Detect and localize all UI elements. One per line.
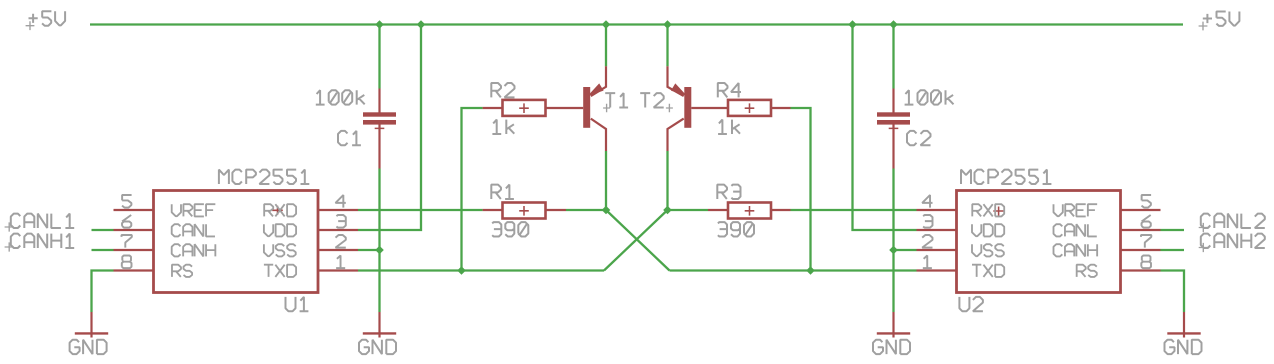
wire U1 RXD to R1: [358, 209, 483, 211]
origin cross T2: [666, 104, 673, 113]
U2 pin 7 CANH: [1054, 235, 1161, 256]
wire U2 RS to GND: [1161, 271, 1185, 313]
wire C2 bottom to GND: [892, 169, 894, 313]
U2 pin 3 VDD: [917, 215, 1005, 236]
label R4 value 1k: [718, 120, 740, 134]
junction C1/U1-VSS: [375, 246, 384, 255]
wire U1 VDD to rail: [358, 25, 421, 231]
U2 pin 6 CANL: [1054, 215, 1161, 236]
label C2 name: [907, 131, 931, 145]
net label CANH2: [1161, 234, 1265, 253]
supply +5V right: [1199, 12, 1240, 31]
junction T2-collector node: [663, 206, 672, 215]
label U1 name: [286, 297, 309, 311]
wire T1 collector vertical: [605, 151, 607, 210]
label C2 value 100k: [905, 90, 954, 104]
wire R4 output vertical: [791, 108, 811, 271]
U1 pin 2 VSS: [264, 235, 358, 256]
supply +5V left: [26, 11, 66, 30]
U1 pin 5 VREF: [114, 195, 216, 216]
junction U1-TXD/R2: [457, 266, 466, 275]
U2 pin 2 VSS: [917, 235, 1004, 256]
wire U2 TXD horizontal: [670, 269, 917, 271]
label R2 value 1k: [492, 120, 514, 134]
label R1 value 390: [492, 222, 528, 236]
capacitor C1: [363, 89, 396, 169]
label U2 part MCP2551: [961, 170, 1051, 184]
wire U1 RS to GND: [92, 271, 114, 313]
label R3 value 390: [718, 222, 754, 236]
wire C1 top: [378, 25, 380, 89]
wire cross-couple T1-collector to U2-TXD: [606, 210, 670, 271]
label C1 name: [338, 131, 361, 145]
wire U2 VDD to rail: [853, 25, 917, 231]
wire cross-couple U1-TXD to T2-collector: [604, 210, 668, 271]
U1 pin 4 RXD: [264, 195, 358, 216]
wire T2 collector to R3: [668, 209, 709, 211]
U2 pin 8 RS: [1077, 256, 1161, 277]
U2 pin 4 RXD: [917, 195, 1005, 216]
resistor R4: [691, 100, 790, 116]
U1 pin 6 CANL: [114, 215, 215, 236]
label U2 name: [959, 297, 983, 311]
U1 pin 8 RS: [114, 256, 193, 277]
wire R2 input vertical: [462, 108, 483, 271]
junction rail/C1: [375, 20, 384, 29]
wire U2 VSS stub: [894, 249, 917, 251]
junction C2/U2-VSS: [889, 246, 898, 255]
wire C1 bottom to GND: [378, 169, 380, 313]
junction rail/T1-emitter: [602, 20, 611, 29]
junction T1-collector node: [602, 206, 611, 215]
label R4 name: [718, 83, 741, 97]
wire T2 collector vertical: [666, 151, 668, 210]
label U1 part MCP2551: [219, 170, 309, 184]
wire C2 top: [892, 25, 894, 89]
junction rail/U1-VDD: [417, 20, 426, 29]
wire R1 output: [566, 209, 606, 211]
junction U2-TXD/R4: [806, 266, 815, 275]
net label CANL1: [5, 214, 114, 232]
wire +5V rail: [90, 23, 1183, 25]
IC U2 MCP2551: [957, 191, 1121, 293]
wire T2 emitter to rail: [666, 25, 668, 67]
ground GND C1: [359, 312, 396, 354]
net label CANL2: [1161, 214, 1265, 233]
ground GND U2: [1165, 312, 1202, 354]
label R1 name: [491, 185, 514, 199]
label R2 name: [491, 83, 514, 97]
resistor R3: [708, 203, 791, 219]
IC U1 MCP2551: [154, 191, 319, 293]
label C1 value 100k: [316, 90, 365, 104]
junction rail/C2: [889, 20, 898, 29]
label R3 name: [717, 185, 740, 199]
junction rail/T2-emitter: [663, 20, 672, 29]
origin cross T1: [603, 104, 610, 113]
junction rail/U2-VDD: [848, 20, 857, 29]
resistor R2: [483, 100, 584, 116]
wire U1 TXD horizontal: [358, 269, 604, 271]
wire U1 VSS stub: [358, 249, 380, 251]
capacitor C2: [877, 89, 910, 169]
label T2 name: [640, 93, 664, 107]
U1 pin 7 CANH: [114, 235, 216, 256]
transistor T2: [668, 66, 692, 151]
U1 pin 3 VDD: [264, 215, 358, 236]
ground GND U1: [70, 312, 109, 354]
ground GND C2: [873, 312, 910, 354]
wire T1 emitter to rail: [605, 25, 607, 67]
transistor T1: [583, 66, 606, 151]
U1 pin 1 TXD: [264, 256, 358, 277]
wire R3 output to U2 RXD: [791, 209, 917, 211]
U2 pin 5 VREF: [1054, 195, 1161, 216]
resistor R1: [483, 203, 566, 219]
label T1 name: [605, 93, 628, 107]
U2 pin 1 TXD: [917, 256, 1005, 277]
net label CANH1: [5, 234, 114, 252]
